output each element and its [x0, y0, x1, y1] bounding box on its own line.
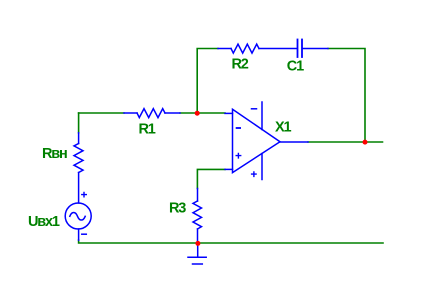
svg-text:Uвх1: Uвх1	[28, 214, 60, 230]
svg-text:X1: X1	[275, 120, 291, 136]
svg-text:R1: R1	[139, 122, 156, 138]
svg-text:C1: C1	[287, 59, 304, 75]
svg-text:R3: R3	[169, 201, 186, 217]
svg-text:Rвн: Rвн	[42, 146, 67, 162]
svg-text:R2: R2	[232, 56, 249, 72]
